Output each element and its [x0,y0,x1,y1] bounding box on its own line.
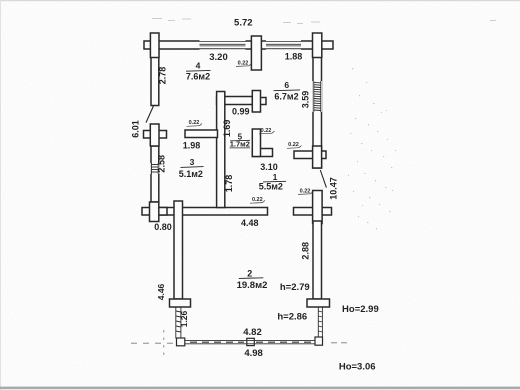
small 0.22 labels [187,60,314,203]
T-cap at bottom of room2 left wall [170,299,191,307]
pillar C core [313,33,322,58]
pillar H core over wall [313,146,322,168]
window: top wall right (over band) [266,40,301,50]
scan speckle noise band right of plan [348,68,396,229]
wall: divider room3/room1 vertical [217,92,225,208]
window: right wall hatched (room 6) [312,81,322,112]
room 2 label [237,268,268,291]
wall: middle horizontal (above room 2) [155,208,268,216]
wall: room 3 top [185,130,218,138]
pillar A core [150,33,159,58]
wall: left exterior upper [151,48,159,106]
top edge scan line [0,0,520,1]
window: top wall left (over band) [200,40,246,50]
bottom light wall of room 2 [185,341,315,344]
wall: right exterior upper (rooms 6/1) [313,48,322,168]
wall: room5 right L horizontal [252,149,272,157]
corner square: room2 bottom-left [177,338,185,346]
pillar E core [150,202,159,222]
pillar H arm [294,151,326,159]
room 1 label [259,172,286,191]
room 6 label [274,80,301,102]
T-cap at bottom of room2 right wall [307,299,330,307]
thin wall below left T-cap [176,308,181,339]
wall: room5 right L vertical [252,129,260,157]
wall: left exterior mid (with window gap overlay later) [151,146,159,202]
pillar D arm [144,131,167,139]
door swing: right wall [320,170,326,188]
pillar L arm (right) [252,98,266,105]
pillar G core + wall: room 2 right [313,191,323,224]
room 4 label [186,61,211,82]
pillar E arm [142,208,167,216]
left edge scan line [0,0,1,390]
thin wall below right T-cap [318,308,322,338]
wall: room 2 left [174,201,183,299]
pillar B (top wall stub) [251,36,261,70]
room 3 label [179,157,204,179]
pillar G arm [294,208,332,216]
window: left wall small hatched [150,163,159,174]
window sill marker on bottom wall [247,338,255,345]
pillar L core [252,91,260,113]
bottom scan band [0,387,520,390]
pillar D core [150,124,159,146]
wall: top exterior band [144,41,333,49]
door swing: left wall top [146,106,154,123]
faint top scan marks [152,18,496,24]
corner bracket: room2 bottom-right [315,337,323,345]
axis dashes bottom-left [131,330,347,357]
wall: room5 top horizontal [217,97,253,105]
room 5 label [230,133,251,149]
